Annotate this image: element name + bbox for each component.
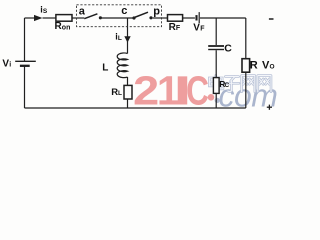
svg-text:L: L [118, 90, 122, 97]
svg-text:L: L [118, 35, 122, 42]
svg-text:L: L [102, 63, 108, 74]
svg-text:p: p [153, 5, 160, 17]
svg-text:C: C [224, 43, 232, 55]
svg-text:a: a [79, 5, 86, 17]
svg-text:2: 2 [133, 68, 159, 113]
svg-text:c: c [121, 5, 127, 17]
svg-text:O: O [270, 64, 275, 71]
svg-text:C: C [225, 82, 230, 89]
svg-text:F: F [200, 25, 205, 32]
svg-text:R: R [250, 59, 258, 71]
svg-text:on: on [62, 24, 71, 31]
svg-text:S: S [43, 8, 48, 15]
svg-text:C: C [186, 68, 209, 114]
svg-text:F: F [176, 25, 181, 32]
svg-text:i: i [9, 62, 11, 69]
